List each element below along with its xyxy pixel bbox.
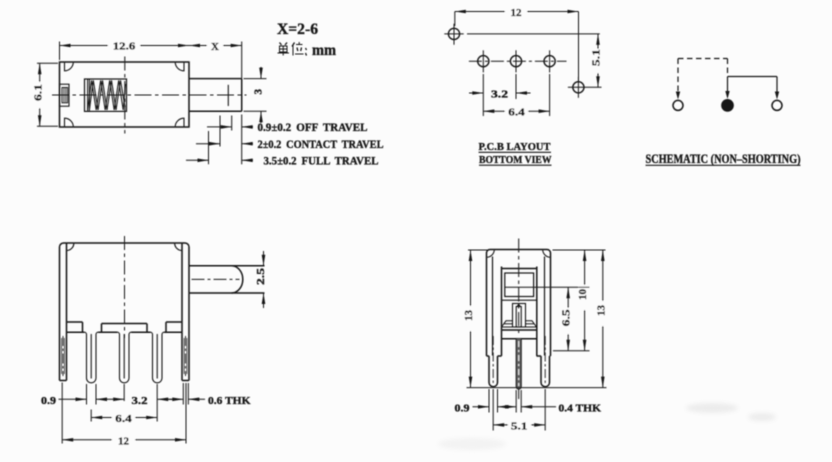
svg-text:2.5: 2.5 — [255, 267, 267, 285]
pin 2 with fillets — [117, 332, 131, 383]
horizontal centerline — [52, 94, 247, 96]
svg-text:6.5: 6.5 — [561, 309, 573, 327]
dimension 12 — [455, 12, 579, 82]
dimension 13 right — [553, 250, 606, 388]
body outline — [487, 250, 551, 357]
arrow onto terminal 1 — [676, 92, 680, 100]
dimension X — [189, 42, 242, 79]
svg-text:0.9: 0.9 — [41, 395, 57, 407]
svg-text:5.1: 5.1 — [511, 420, 528, 432]
extension lines under legs and pins — [62, 383, 188, 444]
dimension 3.2 pin pitch — [96, 398, 124, 400]
switch body outline — [60, 62, 190, 127]
mechanism wings — [502, 321, 537, 327]
pads centerline — [469, 60, 567, 62]
spring housing box — [85, 79, 127, 111]
right leg hatch — [184, 336, 187, 376]
slider window — [505, 273, 534, 297]
corner relief top-left — [65, 62, 74, 71]
pin 3 with fillets — [150, 332, 164, 383]
reference line from top-left pad — [467, 33, 600, 35]
travel tick 2 — [219, 116, 221, 147]
left leg hatch — [62, 336, 65, 376]
spring coil — [88, 80, 126, 112]
svg-text:3: 3 — [253, 88, 265, 94]
pin centerline white — [518, 341, 520, 386]
svg-text:13: 13 — [595, 305, 607, 317]
cavity walls — [502, 267, 537, 357]
svg-text:12.6: 12.6 — [113, 41, 136, 53]
middle pin — [516, 339, 521, 389]
svg-text:6.4: 6.4 — [115, 413, 132, 425]
slot bottom line — [502, 299, 537, 301]
pad hole 3 — [544, 50, 555, 72]
dimension 3.2 — [469, 74, 531, 99]
svg-text:0.9±0.2 OFF TRAVEL: 0.9±0.2 OFF TRAVEL — [258, 120, 368, 134]
dimension 6.4 — [483, 74, 549, 116]
body outline with legs — [60, 243, 190, 381]
svg-text:0.6 THK: 0.6 THK — [208, 395, 251, 407]
svg-text:3.2: 3.2 — [132, 395, 149, 407]
svg-text:12: 12 — [511, 7, 523, 19]
svg-text:6.4: 6.4 — [508, 107, 525, 119]
dimension 6.1 — [37, 63, 58, 126]
pad hole bottom-right — [568, 77, 602, 98]
dimension 5.1 — [493, 424, 545, 426]
base plate — [502, 330, 537, 339]
travel tick 0.9 — [231, 116, 233, 131]
center boss — [102, 324, 148, 333]
svg-text:5.1: 5.1 — [591, 49, 603, 66]
svg-text:13: 13 — [463, 310, 475, 322]
dimension 0.4 THK with arrows — [498, 406, 557, 408]
svg-text:BOTTOM VIEW: BOTTOM VIEW — [479, 154, 552, 166]
terminal 3 open — [772, 100, 782, 110]
bottom shelf left — [67, 322, 83, 332]
terminal 2 filled common — [722, 100, 733, 111]
inner wall lines — [493, 257, 545, 356]
vertical centerline — [124, 236, 126, 338]
dimension 0.9 pin width — [59, 398, 87, 400]
dimension 12 overall — [62, 439, 186, 441]
dimension 0.6 THK — [157, 398, 205, 400]
pin 1 with fillets — [84, 332, 98, 383]
dimension 12.6 — [60, 42, 190, 61]
svg-text:10: 10 — [577, 289, 589, 301]
svg-text:0.4 THK: 0.4 THK — [559, 402, 602, 414]
corner relief top-right — [543, 250, 551, 258]
corner relief bottom-left — [65, 118, 74, 127]
pad hole 1 — [478, 50, 489, 72]
contact mechanism cup — [513, 303, 526, 327]
dimension 13 left — [468, 250, 489, 388]
svg-text:2±0.2 CONTACT TRAVEL: 2±0.2 CONTACT TRAVEL — [258, 137, 384, 151]
shaft position tick — [227, 85, 229, 106]
svg-text:3.5±0.2 FULL TRAVEL: 3.5±0.2 FULL TRAVEL — [264, 154, 379, 168]
arrow onto terminal 2 — [725, 91, 729, 99]
dimension 2.5 — [263, 251, 265, 308]
contact travel dimension 2 — [196, 143, 253, 145]
solid common path — [728, 77, 778, 95]
vertical centerline — [124, 57, 126, 134]
body bottom edge — [67, 331, 183, 333]
dimension 6.4 — [91, 417, 157, 419]
shaft centerline — [192, 278, 240, 280]
svg-text:12: 12 — [118, 435, 130, 447]
svg-text:0.9: 0.9 — [455, 402, 471, 414]
svg-text:X=2-6: X=2-6 — [277, 21, 318, 38]
travel tick 3.5 — [208, 131, 210, 164]
leg step left — [487, 355, 502, 357]
pad hole 2 — [510, 50, 521, 72]
dimension 10 — [584, 250, 586, 351]
dashed throw path — [678, 59, 728, 95]
left anchor tab — [60, 84, 70, 106]
shaft side view — [189, 266, 265, 293]
dimension 6.5 — [505, 287, 590, 351]
svg-text:mm: mm — [312, 42, 337, 59]
bottom reference line — [467, 387, 607, 389]
dimension 0.9 leg — [473, 406, 490, 408]
svg-text:3.2: 3.2 — [491, 89, 509, 101]
faint scan smudges — [438, 403, 776, 450]
dimension 3 (shaft height) — [244, 67, 267, 123]
bottom shelf right — [166, 322, 182, 332]
travel reference line at shaft edge — [241, 115, 243, 165]
corner relief top-right — [175, 62, 184, 71]
terminal 1 open — [673, 100, 683, 110]
svg-text:SCHEMATIC (NON–SHORTING): SCHEMATIC (NON–SHORTING) — [646, 152, 801, 166]
corner relief top-left — [67, 243, 74, 250]
left leg — [489, 356, 498, 387]
svg-text:6.1: 6.1 — [33, 84, 45, 101]
dimension 5.1 — [597, 34, 599, 87]
arrow onto terminal 3 — [775, 92, 779, 100]
pad hole top-left — [444, 24, 463, 45]
leg step right — [537, 355, 551, 357]
full travel dimension 3.5 — [186, 159, 253, 161]
off travel dimension 0.9 — [207, 126, 253, 128]
corner relief top-left — [487, 250, 495, 258]
actuator shaft — [189, 79, 242, 112]
left leg centerline — [492, 336, 494, 383]
svg-text:P.C.B LAYOUT: P.C.B LAYOUT — [479, 141, 552, 153]
svg-text:X: X — [211, 41, 219, 53]
main centerline — [518, 239, 520, 400]
corner relief top-right — [175, 243, 182, 250]
corner relief bottom-right — [175, 118, 184, 127]
right leg centerline — [544, 336, 546, 383]
slot cavity top — [502, 268, 537, 270]
extension lines below — [489, 389, 545, 431]
note unit mm : CJK glyphs drawn as strokes — [278, 42, 307, 56]
right leg — [541, 356, 550, 387]
